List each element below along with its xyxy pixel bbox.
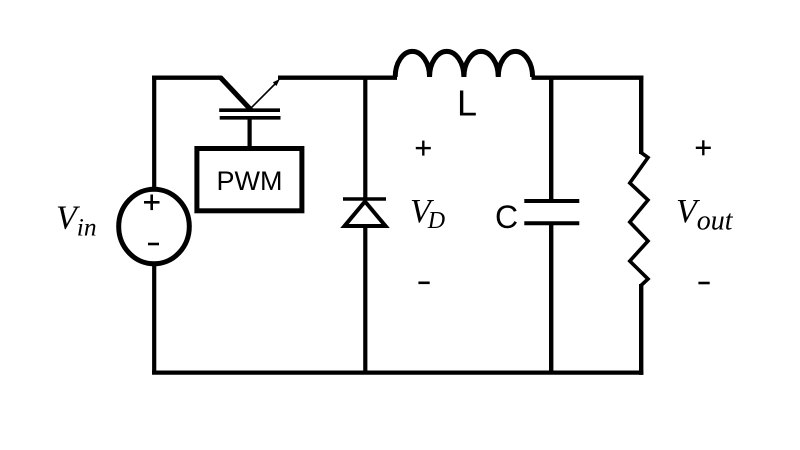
wire capacitor branch lower [549,223,553,374]
transistor Q1 emitter arrow [251,79,281,109]
capacitor C top plate [524,199,579,203]
wire bottom rail [152,371,643,375]
wire right rail lower [639,284,643,375]
voltage source minus sign [148,243,159,246]
wire diode branch lower [363,226,367,374]
svg-text:VD: VD [410,193,445,234]
wire top right horizontal [532,75,644,79]
inductor L [395,51,532,77]
transistor Q1 lower bar [220,116,281,120]
wire right rail upper [639,76,643,155]
wire diode branch upper [363,78,367,200]
transistor Q1 upper bar [219,108,280,112]
transistor Q1 gate stem [248,118,252,148]
wire top-left horizontal [152,75,221,79]
svg-text:PWM: PWM [217,166,283,196]
svg-text:C: C [495,199,518,235]
svg-text:Vout: Vout [676,193,734,237]
resistor R load zigzag [630,153,648,286]
voltage source Vin circle [119,189,190,264]
PWM box [197,149,302,211]
label plus above Vout [696,140,711,155]
label minus below VD [418,281,429,284]
svg-text:Vin: Vin [56,200,97,242]
svg-text:L: L [457,83,477,124]
wire left rail upper [152,76,156,191]
wire top middle horizontal [278,75,397,79]
capacitor C bottom plate [524,221,579,225]
label minus below Vout [698,282,709,285]
voltage source plus sign [144,195,160,211]
diode D1 triangle [345,202,386,227]
diode D1 cathode bar [343,197,386,201]
wire capacitor branch upper [549,78,553,201]
wire left rail lower [152,263,156,374]
label plus above VD [416,141,431,156]
transistor Q1 diagonal collector stroke [220,77,251,110]
